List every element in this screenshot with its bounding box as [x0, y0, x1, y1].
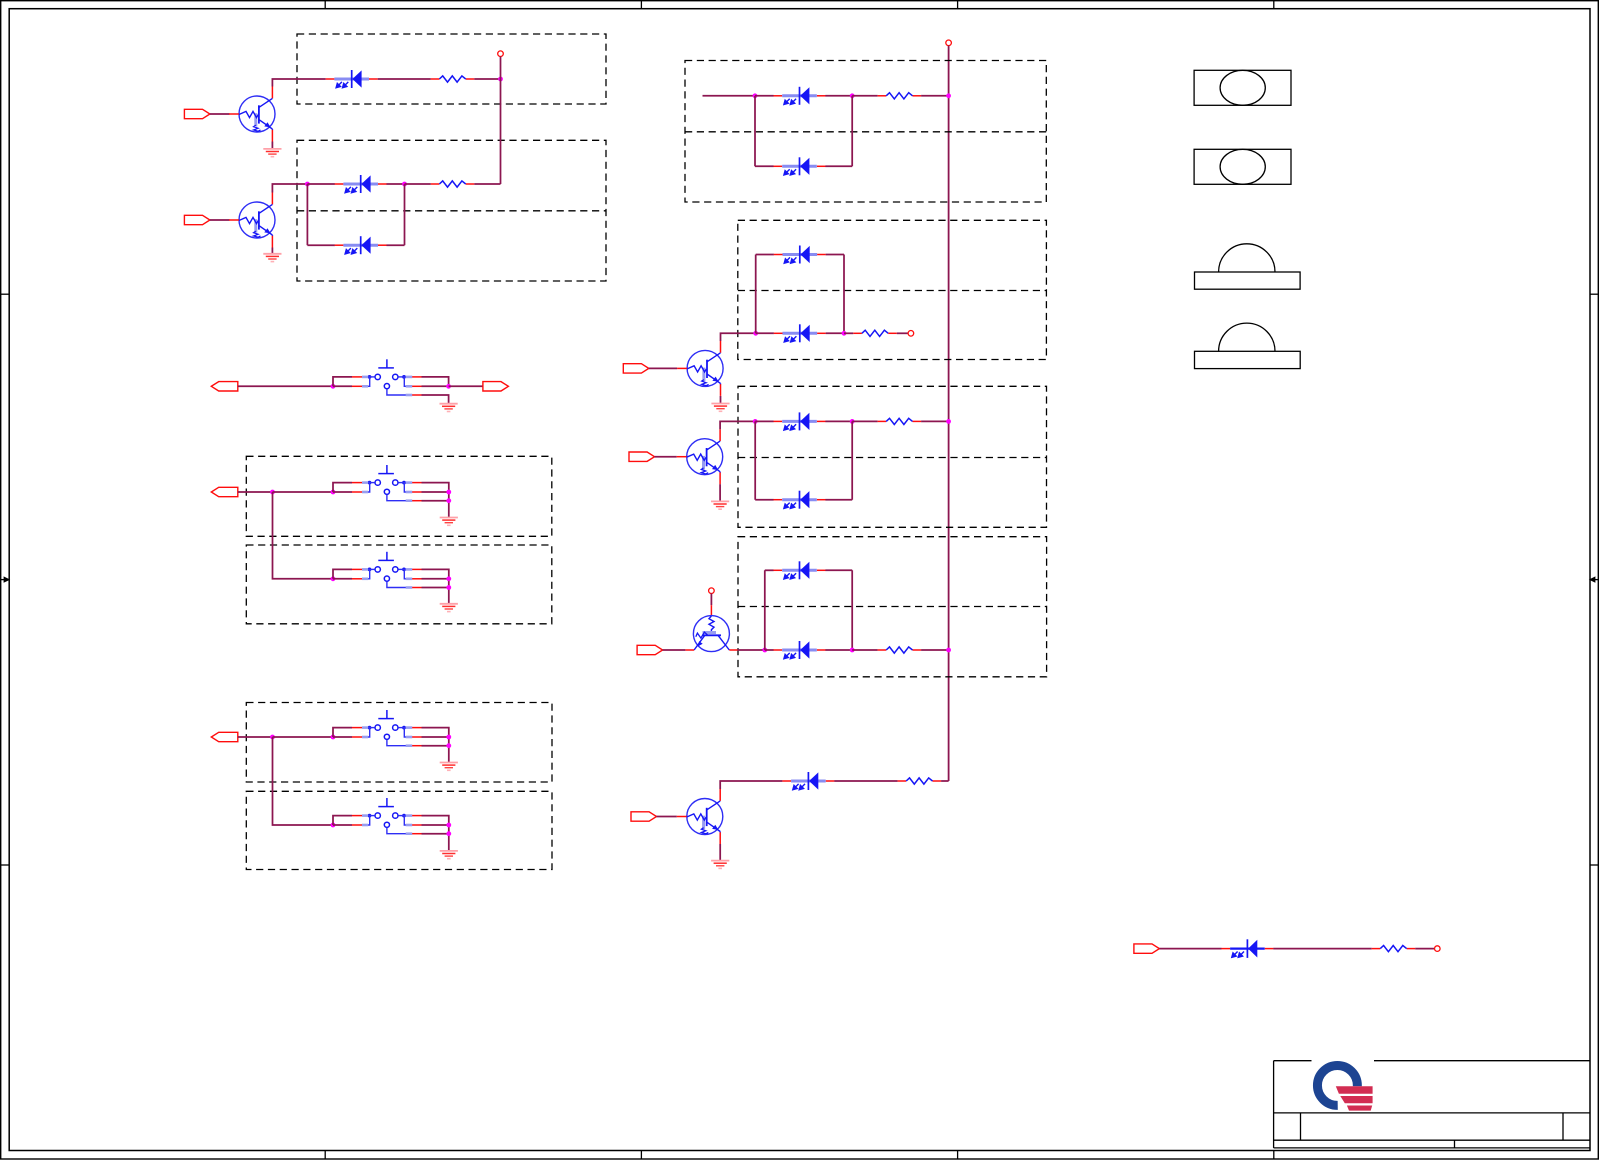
wire R1 to node N1	[474, 78, 500, 80]
node N7 junction	[331, 490, 336, 495]
node N22 junction on bus	[946, 93, 951, 98]
wire IN2 to Q2 base	[210, 219, 230, 221]
button side-view outline 2	[1195, 323, 1301, 369]
node N20 junction	[753, 93, 758, 98]
wire SW3 right side vertical to ground	[422, 569, 449, 603]
wire N23 to D7	[756, 332, 774, 334]
wire N13 to SW4	[273, 736, 334, 738]
node N18 junction	[446, 823, 451, 828]
wire OUT3 to node N6	[238, 491, 273, 493]
LED D4	[774, 87, 826, 105]
wire N13 down to SW5 row	[273, 737, 334, 825]
wire loop top to D6	[756, 254, 774, 256]
LED D7	[774, 324, 826, 342]
wire D5 to loop right	[825, 165, 852, 167]
wire SW3 right row stub	[422, 578, 449, 580]
node N29 junction	[850, 648, 855, 653]
wire loop right vertical group 5	[851, 421, 853, 499]
port IN2	[184, 215, 210, 224]
terminal T1 open circle	[498, 51, 504, 57]
wire Q4 emitter to ground	[719, 484, 721, 501]
wire D4 to node N21	[825, 95, 852, 97]
node N3 junction	[402, 182, 407, 187]
wire SW2 right side vertical to ground	[422, 483, 449, 518]
node N13 junction	[270, 735, 275, 740]
wire loop right vertical group 6	[851, 570, 853, 650]
dashed box LED group 6	[738, 537, 1047, 677]
LED D1	[326, 70, 378, 88]
resistor R8	[1372, 946, 1416, 952]
node N9 junction	[446, 498, 451, 503]
wire D8 to node N26	[825, 420, 852, 422]
LED D3	[335, 236, 387, 254]
wire loop bottom left to D3	[307, 244, 335, 246]
ground GND1	[263, 149, 281, 157]
port OUT2 (right)	[483, 382, 509, 391]
wire D13 to R8	[1273, 948, 1371, 950]
port OUT3 (left)	[211, 487, 238, 496]
node N5 junction	[446, 384, 451, 389]
ground GND3	[440, 404, 458, 412]
dashed box switch group 3 upper	[246, 703, 552, 783]
wire OUT1 to node N4	[238, 385, 333, 387]
wire Q3 emitter to ground	[720, 396, 722, 404]
port IN3	[623, 364, 649, 373]
wire SW1 right row to node N5	[422, 385, 449, 387]
node N24 junction	[842, 331, 847, 336]
LED D9	[774, 491, 826, 509]
push-button switch SW1	[333, 359, 422, 395]
node N14 junction	[331, 735, 336, 740]
wire D9 to loop right	[825, 499, 852, 501]
dashed box LED group 3	[685, 61, 1046, 203]
node N8 junction	[446, 490, 451, 495]
wire N6 to SW2	[273, 491, 334, 493]
node N15 junction	[446, 735, 451, 740]
resistor R6	[878, 647, 922, 653]
wire N20 to D4	[755, 95, 774, 97]
terminal T2 open circle bus top	[946, 40, 952, 46]
wire Q2 emitter to ground	[271, 248, 273, 254]
terminal T3 open circle	[908, 331, 914, 337]
wire N26 to R5	[852, 420, 877, 422]
wire IN6 to Q6 base	[657, 816, 677, 818]
LED D5	[774, 157, 826, 175]
transistor Q5 (base-top)	[685, 616, 737, 652]
LED D6	[774, 246, 826, 264]
dashed divider LED group 3	[685, 131, 1046, 133]
wire IN7 to D13	[1159, 948, 1221, 950]
LED D10	[774, 561, 826, 579]
port IN7	[1134, 944, 1160, 953]
terminal T5 open circle	[1435, 946, 1441, 952]
node N11 junction	[446, 576, 451, 581]
dashed box LED group 5	[738, 386, 1047, 527]
resistor R4	[853, 330, 897, 336]
dashed box switch group 2 lower	[246, 545, 552, 624]
button top-view outline 2	[1194, 149, 1291, 184]
wire R4 to terminal T3	[897, 332, 908, 334]
wire SW4 bottom contact row	[422, 745, 449, 747]
left border centering arrow	[1, 579, 8, 581]
wire SW4 right side vertical to ground	[422, 728, 449, 763]
node N30 junction on bus	[946, 648, 951, 653]
dashed divider LED group 2	[297, 210, 606, 212]
wire D11 to node N29	[825, 649, 852, 651]
wire Q5 collector to node N28	[738, 649, 765, 651]
wire loop right vertical group 3	[851, 96, 853, 167]
wire Q2 collector to node N2	[272, 184, 307, 193]
wire SW1 bottom contact to ground	[422, 395, 449, 404]
dashed box switch group 2 upper	[246, 456, 552, 536]
wire loop bottom to D9	[755, 499, 773, 501]
LED D11	[774, 641, 826, 659]
wire loop left vertical group 3	[754, 96, 756, 167]
right border centering arrow	[1591, 579, 1599, 581]
resistor R3	[878, 93, 922, 99]
wire N25 to D8	[755, 420, 773, 422]
port IN5	[637, 645, 663, 654]
node N6 junction	[270, 490, 275, 495]
node N4 junction	[331, 384, 336, 389]
node N28 junction	[762, 648, 767, 653]
wire N1 vertical bus to R2 output	[500, 57, 502, 185]
resistor R5	[878, 418, 922, 424]
ground GND4	[440, 518, 458, 526]
node N27 junction on bus	[946, 419, 951, 424]
node N19 junction	[446, 831, 451, 836]
ground GND8	[711, 404, 729, 412]
wire parallel loop right vertical	[404, 184, 406, 245]
ground GND2	[263, 254, 281, 262]
push-button switch SW5	[333, 798, 422, 834]
transistor Q4	[677, 429, 723, 484]
dashed box LED group 1	[297, 34, 606, 104]
wire power bus vertical	[948, 46, 950, 781]
resistor R7	[898, 778, 942, 784]
push-button switch SW3	[333, 552, 422, 588]
wire SW5 right side vertical to ground	[422, 816, 449, 851]
wire loop bottom to D5	[755, 165, 774, 167]
wire D6 to loop right	[826, 254, 844, 256]
wire N28 to D11	[765, 649, 774, 651]
LED D13	[1221, 939, 1273, 958]
wire Q4 collector to node N25	[720, 421, 755, 429]
wire OUT4 to node N13	[238, 736, 273, 738]
ground GND5	[440, 604, 458, 612]
node N12 junction	[446, 585, 451, 590]
wire R7 to bus end	[941, 780, 949, 782]
wire SW2 bottom contact row	[422, 500, 449, 502]
port IN1	[184, 109, 210, 118]
port IN4	[629, 452, 655, 461]
ground GND10	[711, 861, 729, 869]
wire N24 to R4	[844, 332, 853, 334]
port OUT4 (left)	[211, 732, 238, 741]
wire R5 to bus node N27	[921, 420, 949, 422]
wire N21 to R3	[852, 95, 877, 97]
dashed box switch group 3 lower	[246, 791, 552, 869]
terminal T4 open circle	[709, 588, 715, 594]
LED D12	[782, 772, 834, 790]
wire loop top to D10	[765, 569, 774, 571]
button top-view outline 1	[1194, 70, 1291, 105]
transistor Q6	[677, 789, 723, 844]
wire Q1 collector to D1	[272, 79, 325, 87]
node N16 junction	[446, 743, 451, 748]
wire N5 to port OUT2	[449, 385, 483, 387]
node N2 junction	[305, 182, 310, 187]
wire R2 to bus corner	[474, 183, 500, 185]
wire Q6 collector to D12	[720, 781, 782, 789]
wire R6 to bus node N30	[921, 649, 949, 651]
wire SW5 right row stub	[422, 824, 449, 826]
port OUT1 (left)	[211, 382, 238, 391]
wire loop left vertical group 5	[754, 421, 756, 499]
ground GND7	[440, 851, 458, 859]
transistor Q1	[229, 87, 275, 142]
wire D10 to loop right	[825, 569, 852, 571]
node N17 junction	[331, 823, 336, 828]
wire D7 to node N24	[826, 332, 844, 334]
wire SW4 right row stub	[422, 736, 449, 738]
wire D3 to loop bottom right	[387, 244, 405, 246]
wire SW1 right loop down	[422, 377, 449, 386]
port IN6	[631, 812, 657, 821]
dashed divider LED group 4	[738, 290, 1047, 292]
dashed divider LED group 5	[738, 457, 1047, 459]
LED D2	[335, 175, 387, 193]
wire D2 to node N3	[387, 183, 405, 185]
wire loop left vertical group 4	[755, 255, 757, 334]
wire IN1 to Q1 base	[210, 113, 230, 115]
node N1 junction	[498, 77, 503, 82]
dashed box LED group 2	[297, 140, 606, 281]
button side-view outline 1	[1195, 244, 1301, 289]
wire Q3 collector to node N23	[721, 333, 756, 341]
wire R8 to terminal T5	[1415, 948, 1434, 950]
wire D12 to R7	[834, 780, 897, 782]
wire loop right vertical group 4	[843, 255, 845, 334]
LED D8	[774, 412, 826, 430]
node N10 junction	[331, 576, 336, 581]
company logo	[1317, 1065, 1373, 1110]
transistor Q3	[677, 341, 723, 396]
ground GND9	[711, 501, 729, 509]
wire stub into LED group 3	[703, 95, 756, 97]
wire IN5 to Q5 emitter	[663, 649, 686, 651]
wire SW2 right row stub	[422, 491, 449, 493]
resistor R1	[431, 76, 475, 82]
wire R3 to bus node N22	[921, 95, 949, 97]
title block outline	[1274, 1061, 1590, 1148]
transistor Q2	[229, 193, 275, 248]
push-button switch SW4	[333, 710, 422, 746]
wire IN4 to Q4 base	[655, 456, 677, 458]
wire Q1 emitter to ground	[271, 142, 273, 149]
dashed divider LED group 6	[738, 606, 1047, 608]
wire IN3 to Q3 base	[649, 367, 677, 369]
wire T4 to Q5 base	[710, 594, 712, 606]
push-button switch SW2	[333, 465, 422, 501]
node N25 junction	[753, 419, 758, 424]
wire SW3 bottom contact row	[422, 587, 449, 589]
wire N29 to R6	[852, 649, 877, 651]
wire D1 to R1	[378, 78, 431, 80]
node N23 junction	[753, 331, 758, 336]
resistor R2	[431, 181, 475, 187]
node N21 junction	[850, 93, 855, 98]
wire N2 to D2	[307, 183, 335, 185]
node N26 junction	[850, 419, 855, 424]
wire SW5 bottom contact row	[422, 833, 449, 835]
wire Q6 emitter to ground	[719, 844, 721, 861]
wire loop left vertical group 6	[764, 570, 766, 650]
wire N3 to R2	[405, 183, 431, 185]
ground GND6	[440, 763, 458, 771]
wire parallel loop left vertical	[306, 184, 308, 245]
wire N6 down to SW3 row	[273, 492, 334, 579]
dashed box LED group 4	[738, 220, 1047, 359]
